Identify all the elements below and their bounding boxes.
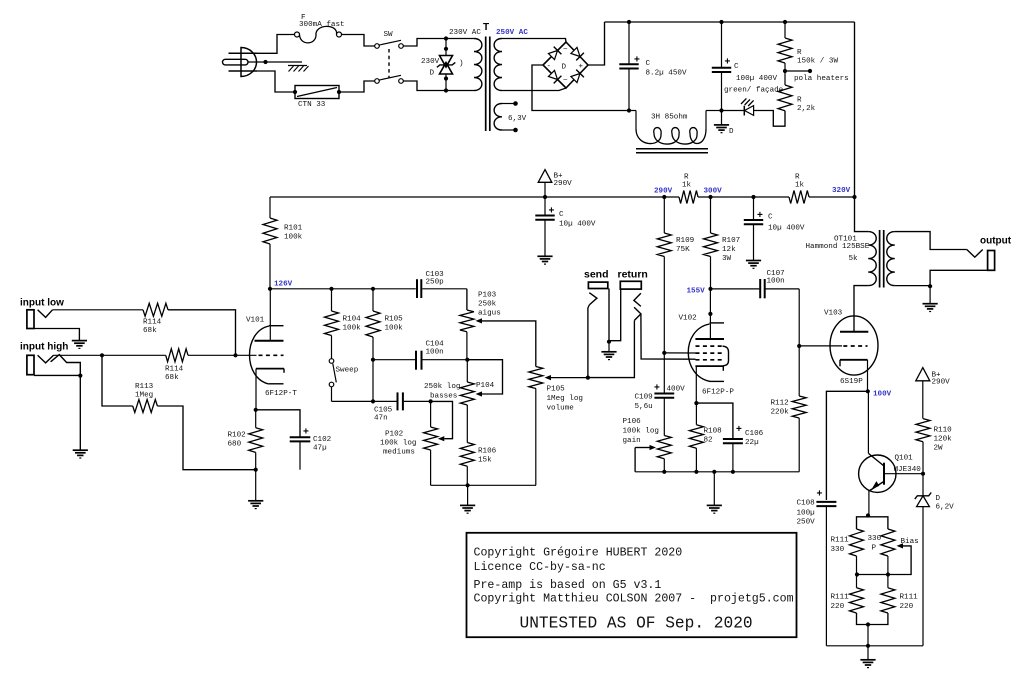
node output ground: [928, 284, 932, 288]
svg-text:68k: 68k: [165, 374, 179, 382]
svg-text:220: 220: [900, 603, 914, 611]
resistor R110 120k 2W: [916, 419, 952, 474]
svg-text:2W: 2W: [934, 445, 944, 453]
svg-text:+: +: [736, 424, 742, 435]
node 155V: [687, 287, 713, 296]
tube V102 6F12P-P: [679, 289, 735, 403]
svg-text:400V: 400V: [667, 386, 686, 394]
svg-text:1k: 1k: [682, 182, 692, 190]
resistor R111 220 (left): [831, 575, 869, 625]
wire CTN to switch bottom: [339, 81, 375, 92]
ground (send/return): [601, 351, 616, 353]
node 290V: [654, 188, 673, 200]
node R102 bottom: [254, 468, 258, 472]
svg-text:300mA fast: 300mA fast: [299, 21, 345, 29]
send-return link wire: [588, 320, 635, 377]
wire R114b to grid node: [188, 354, 236, 356]
svg-text:C: C: [768, 214, 773, 222]
resistor R107 12k 3W: [704, 197, 741, 289]
wire bridge plus to DC+ rail: [588, 22, 605, 65]
svg-text:250V AC: 250V AC: [496, 29, 528, 37]
svg-text:C: C: [734, 63, 739, 71]
svg-text:10µ 400V: 10µ 400V: [559, 221, 596, 229]
svg-text:2,2k: 2,2k: [797, 105, 816, 113]
wire to ground (V101 cathode): [255, 470, 257, 501]
svg-text:R108: R108: [704, 428, 723, 436]
node Q101 emitter: [866, 513, 870, 517]
node C 10u right: [751, 195, 755, 199]
wire switch to transformer primary top: [403, 39, 474, 47]
126V rail: [270, 288, 467, 290]
svg-text:330: 330: [831, 546, 845, 554]
wire secondary top to output jack: [895, 232, 967, 250]
node C1 bottom: [627, 108, 631, 112]
resistor R106 15k: [460, 443, 496, 486]
pot P102 100k log mediums: [380, 401, 453, 485]
svg-text:~: ~: [563, 77, 568, 85]
bias mid rail: [855, 572, 890, 576]
svg-text:10µ 400V: 10µ 400V: [768, 225, 805, 233]
node R105 top: [371, 287, 375, 291]
output transformer OT101 primary: [806, 232, 877, 286]
resistor R 2,2k: [778, 71, 816, 113]
resistor R 1k (left): [679, 174, 698, 204]
resistor R104 100k: [325, 289, 362, 359]
svg-text:C108: C108: [797, 500, 816, 508]
svg-text:100n: 100n: [767, 278, 785, 286]
svg-text:+: +: [654, 383, 660, 394]
node tone bottom: [466, 483, 470, 487]
wire to ground (tone stack): [467, 485, 469, 505]
svg-text:155V: 155V: [687, 288, 706, 296]
svg-text:126V: 126V: [274, 281, 293, 289]
transformer T secondary winding 250V AC: [494, 29, 528, 91]
svg-text:R102: R102: [228, 432, 247, 440]
svg-text:C102: C102: [313, 436, 332, 444]
wire bridge minus to DC- rail: [532, 65, 629, 111]
svg-text:47µ: 47µ: [313, 445, 327, 453]
capacitor C107 100n: [711, 270, 800, 298]
svg-text:250k log: 250k log: [424, 383, 460, 391]
node R104 top: [329, 287, 333, 291]
svg-text:D: D: [936, 495, 941, 503]
resistor R102 680: [228, 410, 263, 470]
wire LED to R2.2k bottom: [754, 111, 785, 127]
ground (C 10u left): [537, 255, 552, 257]
svg-text:+: +: [725, 57, 731, 68]
node C106 bottom: [731, 470, 735, 474]
svg-text:100V: 100V: [873, 391, 892, 399]
svg-text:+: +: [549, 206, 555, 217]
ground (V101 cathode): [248, 500, 263, 502]
svg-text:Q101: Q101: [895, 455, 914, 463]
capacitor C 8.2u 450V: [619, 22, 687, 111]
svg-text:return: return: [618, 269, 648, 281]
svg-text:): ): [459, 60, 464, 68]
svg-text:100k: 100k: [284, 234, 303, 242]
svg-text:+: +: [303, 427, 309, 438]
right B+ drop rail: [854, 22, 856, 197]
svg-text:100k: 100k: [343, 325, 362, 333]
send jack: [588, 282, 608, 378]
svg-text:100k log: 100k log: [623, 428, 659, 436]
svg-text:R105: R105: [385, 316, 404, 324]
svg-text:P103: P103: [478, 292, 497, 300]
capacitor C104 100n: [373, 341, 467, 370]
resistor R111 330: [831, 529, 864, 575]
node bias ground: [866, 644, 870, 648]
ground (C 10u right): [746, 260, 761, 262]
capacitor C109 5,6u: [635, 353, 686, 436]
copyright box: [467, 533, 797, 637]
resistor R108 82: [689, 403, 722, 472]
input high jack: [27, 355, 83, 451]
dashed link between switch poles: [388, 49, 390, 78]
wire secondary top to bridge: [502, 39, 566, 43]
svg-text:input high: input high: [20, 342, 68, 353]
svg-text:Hammond 125BSE: Hammond 125BSE: [806, 243, 870, 251]
svg-text:R101: R101: [284, 225, 303, 233]
svg-text:6,3V: 6,3V: [508, 115, 527, 123]
svg-text:300V: 300V: [704, 188, 723, 196]
svg-text:V101: V101: [246, 317, 265, 325]
chassis earth symbol: [288, 66, 309, 72]
wire plug top to fuse: [257, 35, 295, 54]
ground D (psu): [714, 125, 734, 136]
output transformer OT101 secondary: [887, 232, 895, 286]
ground (input low): [72, 340, 87, 342]
ground (V102 cathode): [707, 504, 722, 506]
ground (input high): [73, 449, 88, 451]
svg-text:8.2µ 450V: 8.2µ 450V: [646, 70, 687, 78]
svg-text:R106: R106: [478, 448, 497, 456]
thermistor CTN 33: [293, 86, 341, 110]
svg-text:R113: R113: [135, 383, 154, 391]
svg-text:send: send: [584, 269, 609, 281]
svg-text:R107: R107: [722, 237, 740, 245]
LED green/facade: [741, 98, 754, 115]
output jack: [930, 250, 995, 287]
svg-text:100k: 100k: [385, 325, 404, 333]
node 320V: [832, 187, 857, 199]
varistor 230V D across primary: [421, 36, 464, 92]
wire secondary bottom: [895, 285, 930, 287]
mains plug: [223, 48, 258, 77]
capacitor C105 47n: [373, 392, 431, 422]
svg-text:V103: V103: [824, 310, 843, 318]
resistor R109 75K: [657, 197, 694, 353]
capacitor C 100u 400V: [712, 22, 784, 125]
svg-text:250k: 250k: [478, 301, 497, 309]
svg-text:3H 85ohm: 3H 85ohm: [651, 114, 688, 122]
node bias bottom: [866, 622, 870, 626]
svg-text:R111: R111: [900, 594, 919, 602]
svg-text:~: ~: [563, 46, 568, 54]
svg-text:green/ façade: green/ façade: [724, 87, 784, 95]
capacitor C106 22u: [696, 403, 763, 472]
bridge rectifier D: [543, 42, 588, 88]
tone stack bottom wire: [431, 484, 536, 486]
svg-text:150k / 3W: 150k / 3W: [797, 58, 838, 66]
svg-text:6,2V: 6,2V: [936, 504, 955, 512]
svg-text:P104: P104: [476, 382, 495, 390]
svg-text:68k: 68k: [143, 327, 157, 335]
ground (output jack): [923, 303, 938, 305]
wire to ground (output): [929, 287, 931, 304]
wire switch to transformer primary bottom: [403, 81, 474, 91]
svg-text:R104: R104: [343, 316, 362, 324]
svg-text:-: -: [547, 63, 552, 71]
wire R114a to grid node: [168, 310, 236, 356]
svg-text:+: +: [634, 55, 640, 66]
wire 320V to OT primary: [855, 197, 869, 232]
node P102 top: [429, 399, 433, 403]
node P104 top: [465, 358, 469, 362]
svg-text:100µ: 100µ: [797, 510, 816, 518]
OT101 core: [880, 230, 884, 288]
switch Sweep: [329, 359, 373, 402]
svg-text:6F12P-P: 6F12P-P: [702, 389, 734, 397]
svg-text:+: +: [579, 63, 584, 71]
node C2 top: [719, 20, 723, 24]
svg-text:R112: R112: [771, 400, 790, 408]
svg-text:47n: 47n: [374, 415, 388, 423]
svg-text:D: D: [430, 70, 435, 78]
wire input low to R114a: [53, 309, 144, 311]
node grid V101: [233, 353, 237, 357]
svg-text:volume: volume: [547, 405, 575, 413]
wire to LED: [722, 110, 745, 112]
transformer T core: [486, 37, 490, 132]
svg-text:3W: 3W: [722, 255, 732, 263]
svg-text:UNTESTED AS OF Sep. 2020: UNTESTED AS OF Sep. 2020: [520, 614, 753, 632]
node R108 bottom: [694, 470, 698, 474]
V102 cathode node: [694, 401, 698, 405]
bias ground rail: [826, 645, 923, 647]
resistor R 1k (right): [789, 174, 809, 204]
svg-text:Bias: Bias: [901, 538, 919, 546]
svg-text:P: P: [872, 545, 877, 553]
node P106 bottom: [662, 470, 666, 474]
svg-text:P106: P106: [623, 418, 642, 426]
svg-text:120k: 120k: [934, 436, 953, 444]
node 100V: [866, 389, 892, 398]
svg-text:C105: C105: [374, 407, 393, 415]
wire input high to R114b: [54, 354, 166, 356]
svg-text:680: 680: [228, 441, 242, 449]
B+ rail: [270, 196, 855, 198]
capacitor C 10u 400V (left): [535, 197, 596, 256]
svg-text:basses: basses: [430, 393, 457, 401]
wire 100V to C108: [826, 391, 867, 500]
svg-text:290V: 290V: [554, 180, 573, 188]
node V102 plate pin: [708, 312, 712, 316]
transformer T primary winding 230V AC: [449, 29, 482, 91]
node g1/R109/C109: [662, 351, 666, 355]
resistor R112 220k: [771, 344, 807, 472]
resistor R 150k/3W: [778, 22, 838, 71]
resistor R105 100k: [366, 289, 403, 402]
svg-text:250V: 250V: [797, 519, 816, 527]
ground (tone stack): [460, 504, 475, 506]
B+ arrow 290V (center): [538, 170, 572, 197]
svg-text:output: output: [980, 236, 1012, 247]
transformer T 6.3V heater winding: [494, 101, 527, 132]
choke 3H 85ohm: [629, 111, 722, 153]
ground (bias network): [860, 659, 875, 661]
svg-text:+: +: [817, 489, 823, 500]
svg-text:5,6u: 5,6u: [635, 403, 653, 411]
wire C107 to V103 grid: [798, 289, 800, 346]
node C2 bottom / ground junction: [719, 108, 723, 112]
svg-text:R109: R109: [676, 237, 695, 245]
svg-text:R111: R111: [831, 537, 850, 545]
svg-text:100n: 100n: [426, 349, 444, 357]
wire to ground (bias): [867, 646, 869, 660]
switch SW (top pole): [375, 31, 404, 48]
return jack: [620, 281, 695, 359]
node send/volume: [586, 376, 590, 380]
resistor R114 68k (input high): [165, 349, 188, 382]
svg-text:R114: R114: [165, 366, 184, 374]
svg-text:gain: gain: [623, 437, 641, 445]
node B+ / C 10u: [543, 195, 547, 199]
tube V101 6F12P-T: [236, 289, 298, 410]
resistor R111 220 (right): [868, 575, 918, 625]
node C104 tap: [371, 358, 375, 362]
svg-text:230V AC: 230V AC: [449, 29, 481, 37]
resistor R114 68k (input low): [143, 303, 168, 335]
pot 330 P Bias: [868, 529, 919, 575]
wire plug bottom to CTN: [257, 71, 295, 92]
svg-text:pola heaters: pola heaters: [794, 75, 849, 83]
svg-text:100k log: 100k log: [380, 440, 416, 448]
pot P103 250k aigus: [460, 289, 536, 367]
svg-text:290V: 290V: [932, 379, 951, 387]
svg-text:SW: SW: [384, 31, 394, 39]
fuse F 300mA fast: [295, 14, 345, 43]
node 300V: [704, 188, 723, 200]
svg-text:+: +: [757, 210, 763, 221]
svg-text:Copyright Matthieu COLSON 2007: Copyright Matthieu COLSON 2007 - projetg…: [474, 592, 794, 605]
svg-text:Sweep: Sweep: [336, 367, 359, 375]
node ground stem: [712, 470, 716, 474]
node 126V: [268, 281, 293, 291]
capacitor C 10u 400V (right): [744, 197, 805, 261]
wire grid1 (R109 node) into V102: [664, 352, 695, 354]
svg-text:220k: 220k: [771, 409, 790, 417]
svg-text:C109: C109: [635, 394, 654, 402]
svg-text:22µ: 22µ: [745, 439, 759, 447]
wire secondary bottom to bridge: [502, 88, 566, 91]
svg-text:CTN 33: CTN 33: [298, 101, 326, 109]
node C105 tap: [371, 399, 375, 403]
svg-text:C104: C104: [426, 341, 445, 349]
svg-text:C: C: [559, 211, 564, 219]
capacitor C102 47u: [256, 410, 332, 470]
svg-text:T: T: [483, 22, 489, 33]
node Q101 base / zener: [921, 472, 925, 476]
wire bias bottom to rail: [867, 625, 869, 646]
capacitor C103 250p: [417, 271, 444, 298]
svg-text:R114: R114: [143, 319, 162, 327]
pot P105 1Meg log volume: [529, 367, 588, 486]
svg-text:82: 82: [704, 437, 714, 445]
tube V103 6S19P: [799, 310, 878, 392]
svg-text:250p: 250p: [426, 279, 445, 287]
svg-text:290V: 290V: [654, 188, 673, 196]
V102 cathode ground rail: [635, 471, 799, 473]
pot P104 250k log basses: [424, 360, 503, 443]
capacitor C108 100u 250V: [797, 489, 837, 646]
bias network top split: [857, 516, 888, 530]
zener diode D 6,2V: [915, 474, 954, 646]
svg-text:R111: R111: [831, 594, 850, 602]
svg-text:6F12P-T: 6F12P-T: [265, 390, 297, 398]
svg-text:Copyright Grégoire HUBERT 2020: Copyright Grégoire HUBERT 2020: [474, 546, 683, 559]
pot P106 100k log gain: [623, 418, 672, 472]
wire fuse to switch: [342, 35, 375, 47]
resistor R101 100k: [263, 197, 303, 289]
svg-text:320V: 320V: [832, 187, 851, 195]
svg-text:6S19P: 6S19P: [840, 378, 863, 386]
wire to ground (V102): [713, 472, 715, 506]
svg-text:230V: 230V: [421, 58, 440, 66]
svg-text:R110: R110: [934, 427, 953, 435]
input low jack: [27, 310, 80, 341]
switch SW (bottom pole): [375, 75, 404, 83]
svg-text:aigus: aigus: [478, 310, 501, 318]
svg-text:100µ 400V: 100µ 400V: [736, 75, 777, 83]
svg-text:Licence CC-by-sa-nc: Licence CC-by-sa-nc: [474, 561, 606, 574]
svg-text:Pre-amp is based on G5 v3.1: Pre-amp is based on G5 v3.1: [474, 579, 662, 592]
node pola heaters tap: [783, 69, 849, 83]
svg-text:R: R: [684, 174, 689, 182]
resistor R113 1Meg: [102, 355, 256, 469]
svg-text:V102: V102: [679, 315, 698, 323]
svg-text:P102: P102: [385, 431, 404, 439]
wire plug-middle-pin to chassis: [248, 60, 302, 64]
svg-text:15k: 15k: [478, 457, 492, 465]
transistor Q101 MJE340: [859, 391, 923, 515]
svg-text:220: 220: [831, 603, 845, 611]
svg-text:1Meg: 1Meg: [135, 392, 153, 400]
svg-text:D: D: [562, 64, 567, 72]
jack sleeves to ground: [607, 289, 621, 352]
svg-text:1k: 1k: [795, 182, 805, 190]
svg-text:mediums: mediums: [383, 449, 415, 457]
DC+ top rail: [605, 21, 855, 23]
wire OT primary bottom to V103 plate: [854, 286, 868, 332]
svg-text:P105: P105: [547, 386, 566, 394]
svg-text:input low: input low: [20, 298, 64, 309]
B+ arrow 290V (right): [916, 368, 950, 419]
svg-text:5k: 5k: [849, 255, 859, 263]
node R113 tap: [100, 353, 104, 357]
svg-text:R: R: [797, 49, 802, 57]
node C1 top: [627, 20, 631, 24]
svg-text:1Meg log: 1Meg log: [547, 395, 583, 403]
svg-text:MJE340: MJE340: [894, 466, 922, 474]
svg-text:75K: 75K: [676, 246, 690, 254]
svg-text:R: R: [795, 174, 800, 182]
svg-text:C: C: [646, 60, 651, 68]
svg-text:D: D: [729, 128, 734, 136]
node R150k top: [783, 20, 787, 24]
svg-text:R: R: [797, 97, 802, 105]
svg-text:330: 330: [868, 535, 882, 543]
node cathode V101: [254, 408, 258, 412]
